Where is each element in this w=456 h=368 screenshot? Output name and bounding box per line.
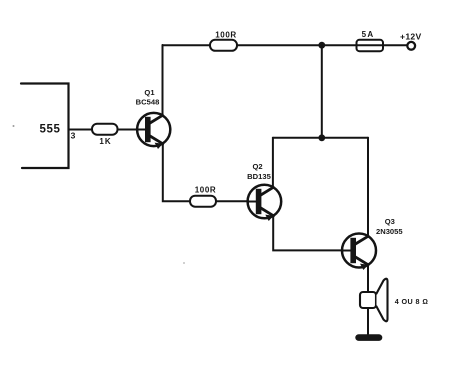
- node junction top rail: [318, 42, 325, 49]
- svg-text:4 OU 8 Ω: 4 OU 8 Ω: [395, 297, 429, 306]
- resistor 100R lower: [190, 196, 216, 207]
- resistor 1K: [92, 124, 118, 135]
- terminal +12V: [407, 42, 415, 50]
- wire Q2 emitter down and to Q3 base: [273, 216, 342, 251]
- resistor 100R top: [210, 40, 237, 51]
- speaker LS1: [360, 279, 388, 322]
- svg-text:1K: 1K: [99, 137, 111, 146]
- svg-text:555: 555: [40, 124, 61, 136]
- node junction mid: [318, 134, 325, 141]
- svg-text:+12V: +12V: [400, 31, 422, 41]
- wire Q1 emitter down and to 100R: [163, 144, 190, 201]
- wire Q3 emitter to speaker: [367, 265, 369, 292]
- svg-text:BD135: BD135: [247, 172, 271, 181]
- transistor Q2: [248, 185, 282, 221]
- wire speaker to ground: [367, 308, 369, 335]
- wire Q1 collector to top rail: [162, 45, 164, 115]
- svg-text:BC548: BC548: [136, 98, 160, 107]
- wire 555 pin3 to R 1K: [69, 129, 93, 131]
- wire down to Q2 collector: [272, 138, 274, 187]
- svg-text:2N3055: 2N3055: [376, 227, 403, 236]
- wire top rail left segment: [163, 44, 211, 46]
- svg-text:Q1: Q1: [144, 88, 155, 97]
- wire 1K to Q1 base: [118, 129, 138, 131]
- ground: [355, 334, 382, 341]
- svg-text:100R: 100R: [195, 186, 217, 195]
- wire down to Q3 collector: [367, 138, 369, 236]
- svg-text:Q2: Q2: [253, 162, 263, 171]
- wire 100R to Q2 base: [216, 200, 248, 202]
- svg-text:Q3: Q3: [385, 217, 395, 226]
- wire top rail right segment: [237, 44, 407, 46]
- svg-text:5A: 5A: [362, 30, 375, 39]
- speck artifacts: [13, 125, 15, 127]
- fuse F1 5A: [357, 40, 384, 51]
- transistor Q3: [342, 234, 376, 270]
- wire junction down from rail: [321, 45, 323, 138]
- svg-text:3: 3: [71, 131, 76, 141]
- wire mid horizontal to Q2 and Q3 collectors: [273, 137, 368, 139]
- svg-text:100R: 100R: [215, 30, 237, 39]
- transistor Q1: [137, 113, 170, 149]
- IC 555 box: [21, 84, 69, 169]
